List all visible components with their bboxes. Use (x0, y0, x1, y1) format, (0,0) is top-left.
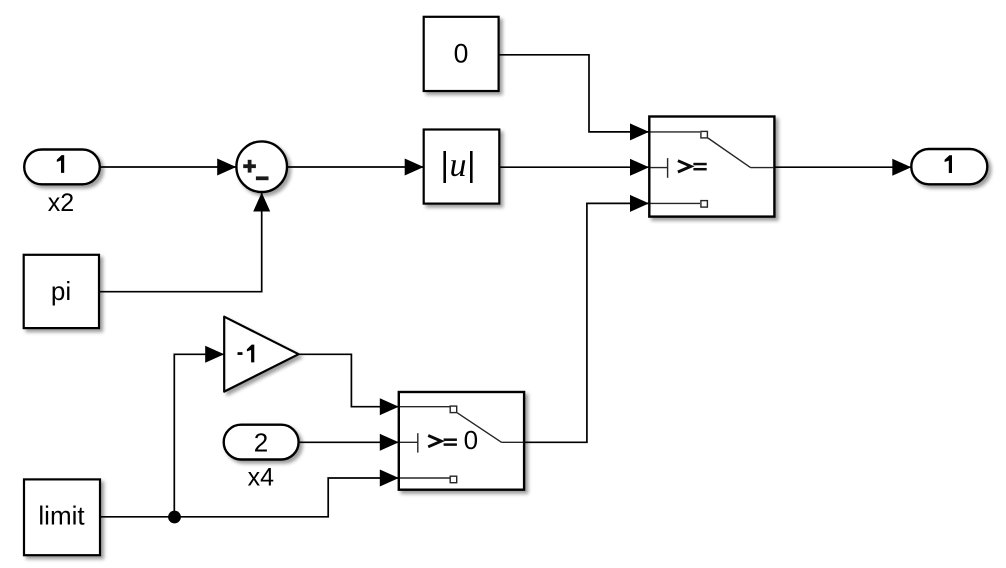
svg-text:pi: pi (51, 276, 71, 306)
svg-text:x2: x2 (48, 189, 74, 217)
svg-text:0: 0 (464, 425, 478, 455)
svg-text:limit: limit (38, 500, 85, 530)
svg-text:u: u (450, 147, 467, 184)
svg-text:x4: x4 (248, 464, 275, 492)
svg-text:0: 0 (454, 38, 469, 68)
svg-text:2: 2 (254, 428, 268, 458)
